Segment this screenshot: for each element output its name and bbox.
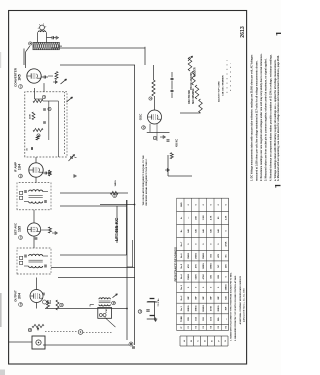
svg-text:No.2: No.2 [181,295,183,300]
svg-text:1MEG: 1MEG [115,180,117,186]
wire V4 grid [36,278,38,290]
svg-text:No.1: No.1 [181,305,183,310]
node junction output B+ [126,308,128,310]
svg-text:A-: A- [180,216,183,219]
wire osc coil top arrow [188,56,193,61]
capacitor C1 loop trimmer [47,37,53,39]
svg-text:C1B OSC TRIMMER: C1B OSC TRIMMER [223,75,225,96]
svg-text:RESISTANCE READINGS: RESISTANCE READINGS [174,247,178,282]
wire V2 grid [35,157,37,163]
T3 tuning cap primary [24,255,26,258]
wire V2 plate [35,177,37,183]
wire junction stub [100,204,135,206]
wire IF screen feed [60,254,127,256]
scan artifact bottom-left corner [0,370,5,375]
svg-text:47K: 47K [187,264,190,268]
capacitor C10 V2 cathode [43,172,45,174]
capacitor C8 inside T1 [43,122,46,124]
wire B+ bus segment 2 [126,200,128,255]
electrolytic C13 [43,300,47,304]
T2 primary winding [29,190,43,192]
IF transformer T2 dashed box [17,183,51,210]
loop antenna terminal ref A [29,42,32,45]
component C9 inside T1 [30,147,32,150]
wire long B- bus horizontal [134,65,136,345]
resistor R7 inside T1 [36,136,39,140]
tuning gang dashed linkage [63,92,65,154]
capacitor C15 at B junction [132,347,135,349]
wire loop to V1 grid [25,52,27,68]
T3 slug adjust [20,261,23,264]
wire V3 plate [33,236,35,248]
wire IF bracket top [60,205,127,207]
svg-text:2. MEASURED FROM PIN 7 OF V5 W: 2. MEASURED FROM PIN 7 OF V5 WITH VOLUME… [234,275,237,341]
svg-text:470K: 470K [210,305,213,311]
capacitor C2 grid [41,76,44,78]
ref R4 [42,95,45,98]
T2 tuning cap secondary [44,200,46,203]
svg-text:47K: 47K [217,253,220,257]
wire osc L-link [167,155,169,176]
svg-text:10MEG: 10MEG [203,305,205,313]
svg-text:7.5 V B+: 7.5 V B+ [158,298,160,307]
wire R2 right to bus [153,65,155,80]
battery BT1 cells [147,318,157,320]
coil L2 winding [38,31,46,32]
svg-text:4.7K: 4.7K [210,215,213,220]
tube V4 ref circle [19,303,23,307]
ref C14 [138,310,142,314]
svg-text:SEC WINDING: SEC WINDING [193,88,195,104]
wire B+ bus horizontal [126,200,128,340]
speaker SP1 frame [98,308,112,319]
wire output stage B+ [45,308,127,310]
resistor R1 grid leak [55,72,58,80]
svg-text:1MEG: 1MEG [188,273,190,279]
tube V3 ref circle [19,236,23,240]
ground for C1 [55,36,57,40]
page border frame [9,11,247,365]
T4 core lines [99,301,111,303]
jack J1 box [32,336,45,349]
ground osc tank [165,169,167,171]
T2 secondary winding [29,202,43,204]
wire bracket corner [132,240,134,267]
svg-text:1MEG: 1MEG [226,284,228,290]
alignment legend strip [180,345,228,347]
scan artifact top-left edge [0,52,1,68]
wire R2 to V5 [154,96,156,110]
tube V3 detector AVC 1S5 [27,223,40,236]
wire battery top [147,301,155,303]
tube V2 ref circle [19,174,23,178]
ref T4 [112,301,116,305]
wire loop antenna bus down right side [51,47,145,49]
svg-text:470K: 470K [202,274,205,280]
tube V2 IF amplifier 1U4 [29,163,43,177]
T3 secondary winding [29,266,43,268]
ref C6 [153,136,156,139]
svg-text:ADJUST TOP CORE: ADJUST TOP CORE [218,81,221,102]
variable capacitor C1B arrow [67,97,73,102]
svg-text:1U4: 1U4 [18,164,22,170]
ground trimmer [75,157,77,159]
T3 primary winding [29,254,43,256]
diode load parts [41,229,50,231]
svg-text:1. DC Voltage measurements ta: 1. DC Voltage measurements taken with va… [251,54,254,181]
ground V2 cathode [47,172,49,174]
tube V1 ref circle [19,85,23,89]
wire bottom A- return [43,344,129,346]
wire AF grid line [58,277,135,279]
svg-text:No.4: No.4 [180,274,183,279]
wire V5 bottom leads [149,124,151,132]
ref R2 [149,97,152,100]
svg-text:3MEG: 3MEG [188,252,190,258]
svg-text:1R5: 1R5 [18,74,22,80]
svg-text:25K: 25K [226,264,228,268]
svg-text:---: --- [226,318,228,320]
wire V4 plate [36,303,38,309]
svg-text:(c)Howard W. Sams + Co., Inc.: (c)Howard W. Sams + Co., Inc. 1951 [243,287,245,322]
svg-text:THE OSCILLATOR FREQUENCY IS EQ: THE OSCILLATOR FREQUENCY IS EQUAL TO THE [142,155,145,206]
resistor R11 V4 bias [56,300,59,310]
wire battery bottom [154,302,156,321]
wire T4 B+ lead with arrow [113,294,118,298]
tuning slug with adjustment arrows [40,25,45,30]
capacitor C14 battery bypass [146,310,149,312]
capacitor C12 V4 grid [42,293,44,296]
svg-text:25K: 25K [196,215,198,219]
svg-text:PM: PM [106,309,108,312]
wire T4 plate hook [90,304,94,306]
output transformer T4 secondary [99,305,111,307]
svg-text:NC: NC [226,254,228,258]
tube V5 ref circle [142,126,146,130]
wire V3 grid [33,210,35,223]
svg-text:GND: GND [181,202,183,207]
svg-text:640K: 640K [195,274,198,280]
wire loop to bus [59,45,62,47]
svg-text:3. Measured values are from s: 3. Measured values are from socket pin t… [265,58,268,181]
svg-text:3V4: 3V4 [18,293,22,299]
svg-text:---: --- [188,217,190,219]
capacitor C4 osc [171,91,174,93]
svg-text:I.F=455 KC: I.F=455 KC [114,217,119,241]
arrow battery minus [155,318,157,322]
svg-text:OSC: OSC [139,113,143,120]
switch SW1 dashed linkage [45,331,78,333]
wire osc cathode link [147,131,170,133]
svg-text:RECEIVED SIGNAL FREQUENCY PLUS: RECEIVED SIGNAL FREQUENCY PLUS THE I.F. [145,158,148,205]
svg-text:5MEG: 5MEG [203,252,205,258]
wire T1 internal 2 [48,101,50,140]
svg-text:measured at 1,000 ohms per vol: measured at 1,000 ohms per volt; line vo… [255,60,258,181]
wire osc coil bottom [180,112,201,114]
resistor R3 osc [170,153,173,159]
wire speaker to switch diagonal [105,317,116,327]
wire grid return top [23,49,25,66]
wire screen bus [60,192,128,194]
svg-text:1.5M: 1.5M [203,215,205,220]
T3 tuning cap secondary [44,265,46,268]
capacitor C7 inside T1 [43,109,46,111]
svg-text:G: G [225,340,227,342]
wire V1 plate to IF box [43,83,45,92]
ref R6 [37,134,40,137]
trimmer C1C [70,156,72,159]
ref R12 [28,328,31,331]
svg-text:No.5: No.5 [181,263,183,268]
svg-text:SEL: SEL [218,316,220,321]
svg-text:1MEG: 1MEG [196,305,198,311]
T2 slug adjust top [20,196,23,199]
ref R11 [60,303,63,306]
wire T1 internal 3 [57,101,59,157]
fold mark top-right margin [276,32,281,34]
svg-text:455 KC ADJUST: 455 KC ADJUST [190,72,193,90]
T2 tuning cap primary [24,190,26,193]
svg-text:TUBE: TUBE [181,316,183,322]
svg-text:No.3: No.3 [181,284,183,289]
resistor R5 inside T1 [32,112,35,120]
node B junction [130,343,132,345]
svg-text:2613: 2613 [240,26,246,38]
resistor R10 V4 [47,301,50,308]
svg-text:2.2K: 2.2K [226,215,228,220]
svg-text:1S5: 1S5 [18,226,22,232]
wire T3 leads [43,255,48,257]
switch SW1 rotor [78,330,83,335]
fold mark mid-right margin [275,185,281,187]
volume control R12 potentiometer [32,324,44,327]
ref R13 [113,194,117,198]
speaker SP1 voice coil dots [99,314,102,317]
svg-text:b. Measured with set operatin: b. Measured with set operating; see note… [277,55,280,181]
node junction dot on B- bus [134,204,136,206]
svg-text:2MEG: 2MEG [196,252,198,258]
svg-text:22K: 22K [218,274,220,278]
wire jack to border [9,341,32,343]
ground V3 [52,232,55,234]
svg-text:1MEG: 1MEG [211,263,213,269]
wire V1 screen [34,88,36,99]
svg-text:NC: NC [218,264,220,268]
wire T1 internal 4 [43,100,58,102]
resistor R9 V3 load [49,227,52,233]
svg-text:470K: 470K [225,241,228,247]
table grid [176,198,178,330]
resistor R8 V2 [49,170,52,176]
T2 core lines [29,197,43,199]
svg-text:47K: 47K [195,264,198,268]
oscillator coil L3 tapped winding chain [199,99,203,113]
svg-text:2MEG: 2MEG [188,305,190,311]
svg-text:OSC PRI 680: OSC PRI 680 [189,89,191,104]
oscillator coil frame L2 box [37,32,39,42]
ground V5 cathode [160,136,163,138]
ground V1 grid return [53,81,55,83]
wire bus corner to AVC line [144,47,146,65]
svg-text:A NATIONAL COMPANY MODERN RADI: A NATIONAL COMPANY MODERN RADIO SERVICE [239,275,242,324]
svg-text:No.6: No.6 [181,253,183,258]
tube V4 audio output 3V4 [30,290,43,303]
wire T2 leads [43,191,48,193]
wire detector output [51,267,135,269]
T3 core lines [29,261,43,263]
tube V5 oscillator section of 1R5 [148,110,162,124]
output transformer T4 primary [99,298,111,300]
wire T1 internal 1 [35,98,44,100]
svg-text:1MEG: 1MEG [203,263,205,269]
svg-text:No.7: No.7 [181,241,183,246]
IF transformer T1 dashed box [25,92,67,157]
resistor R2 osc grid [152,80,155,96]
wire osc cap link [171,93,173,99]
capacitor C11 under V3 [35,238,38,240]
svg-text:220K: 220K [30,114,32,119]
svg-text:1. TAKEN WITH VOLTOHMYST TYPE: 1. TAKEN WITH VOLTOHMYST TYPE VTVM FROM … [230,272,233,341]
svg-text:4. Nominal tolerance on compo: 4. Nominal tolerance on component values… [269,54,272,181]
alignment tick marks [226,60,228,93]
resistor R6 inside T1 [33,129,43,132]
capacitor C6 osc tank [167,140,170,142]
loop antenna LA1 hatched loop [33,42,59,49]
variable capacitor C1A arrow [61,79,67,84]
IF transformer T3 dashed box [17,248,51,274]
T2 slug adjust 2 [20,191,23,194]
tube V1 converter 1R5 [27,69,41,83]
svg-text:2MEG: 2MEG [218,305,220,311]
wire IF bracket [116,206,118,243]
svg-text:455 KC: 455 KC [176,139,179,147]
scan artifact left edge [0,293,2,327]
capacitor C5 osc [171,79,174,81]
jack J1 contact [36,340,41,345]
resistor R4 inside T1 [33,100,43,103]
wire AVC bus vertical [60,64,135,66]
svg-text:2. Resistance readings over o: 2. Resistance readings over one megohm a… [260,53,263,181]
ref C7 [48,107,51,110]
resistor R13 on screen bus [111,191,119,194]
